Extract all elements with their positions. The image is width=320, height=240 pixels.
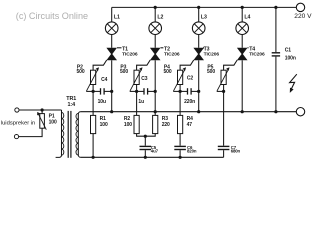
wire pot P4 bottom bbox=[179, 85, 181, 92]
node junction triac line T2 bbox=[154, 90, 157, 93]
node junction triac line T1 bbox=[110, 90, 113, 93]
lamp L1 bbox=[105, 7, 120, 34]
wire R2/R3 bottoms join bbox=[137, 134, 156, 137]
svg-text:TIC206: TIC206 bbox=[164, 52, 180, 58]
node junction pot P5 / filter bbox=[222, 90, 225, 93]
svg-text:C4: C4 bbox=[101, 77, 108, 83]
svg-text:(c) Circuits Online: (c) Circuits Online bbox=[16, 11, 88, 21]
node top rail junction L4 bbox=[241, 6, 244, 9]
triac T3 TIC206 bbox=[193, 46, 219, 60]
svg-text:T4: T4 bbox=[249, 46, 255, 52]
wire pot P5 bottom bbox=[223, 85, 225, 92]
svg-text:1:4: 1:4 bbox=[68, 102, 76, 108]
svg-text:500: 500 bbox=[207, 69, 215, 75]
svg-text:500: 500 bbox=[120, 69, 128, 75]
potentiometer P1 100 bbox=[37, 110, 57, 130]
svg-text:4u7: 4u7 bbox=[151, 149, 159, 154]
wire triac T3 down to mid rail bbox=[198, 60, 200, 111]
svg-text:500: 500 bbox=[164, 69, 172, 75]
wire input bottom to P1 bottom bbox=[19, 128, 42, 136]
wire P3 junction down to R2 bbox=[136, 91, 138, 115]
node mid rail junction T1 bbox=[110, 110, 113, 113]
transformer TR1 secondary winding bbox=[78, 112, 80, 158]
node mid rail junction T2 bbox=[154, 110, 157, 113]
wire triac T2 down to mid rail bbox=[154, 60, 156, 111]
svg-text:47: 47 bbox=[187, 122, 193, 128]
svg-text:680n: 680n bbox=[231, 149, 241, 154]
potentiometer P3 500 bbox=[120, 64, 143, 91]
svg-text:P1: P1 bbox=[49, 113, 55, 119]
svg-text:1u: 1u bbox=[138, 99, 144, 105]
svg-text:TIC206: TIC206 bbox=[204, 52, 220, 58]
svg-text:100: 100 bbox=[49, 120, 57, 126]
svg-text:L2: L2 bbox=[157, 14, 163, 20]
resistor R2 100 bbox=[124, 115, 139, 133]
node top rail junction L3 bbox=[197, 6, 200, 9]
svg-text:820n: 820n bbox=[187, 149, 197, 154]
resistor R1 100 bbox=[91, 115, 108, 133]
triac T2 TIC206 bbox=[150, 46, 180, 60]
wire gate of T2 to pot P3 bbox=[137, 60, 151, 70]
wire triac T4 down to mid rail bbox=[241, 60, 243, 111]
svg-text:100n: 100n bbox=[285, 56, 296, 62]
mains warning lightning bolt bbox=[290, 74, 297, 93]
wire P4 junction down to R4 bbox=[179, 91, 181, 115]
svg-text:220: 220 bbox=[162, 122, 170, 128]
capacitor C4 10u bbox=[86, 77, 112, 105]
wire pot P2 bottom bbox=[92, 85, 94, 92]
node top rail junction C1 bbox=[274, 6, 277, 9]
resistor R4 47 bbox=[178, 115, 194, 133]
transformer TR1 core bbox=[68, 111, 69, 158]
terminal 220V bottom bbox=[296, 108, 304, 116]
wire top 220V rail bbox=[112, 6, 297, 8]
svg-text:L3: L3 bbox=[201, 14, 207, 20]
node top rail junction L2 bbox=[154, 6, 157, 9]
svg-text:L1: L1 bbox=[114, 14, 120, 20]
capacitor C3 1u bbox=[130, 76, 156, 105]
triac T1 TIC206 bbox=[106, 46, 138, 60]
wire P2 junction down to R1 bbox=[92, 91, 94, 115]
terminal speaker input bottom bbox=[14, 135, 18, 139]
wire R1 to bottom rail bbox=[92, 134, 94, 158]
wire gate of T4 to pot P5 bbox=[224, 60, 238, 70]
node junction pot P2 / filter bbox=[92, 90, 95, 93]
lamp L4 bbox=[236, 7, 251, 34]
svg-text:100: 100 bbox=[124, 122, 132, 128]
node junction pot P3 / filter bbox=[135, 90, 138, 93]
node mid rail junction C1 bbox=[274, 110, 277, 113]
wire lamp L4 to triac T4 bbox=[241, 35, 243, 48]
svg-text:TIC206: TIC206 bbox=[249, 52, 265, 58]
triac T4 TIC206 bbox=[237, 46, 265, 60]
svg-text:luidspreker in: luidspreker in bbox=[1, 121, 35, 127]
node P1 top junction bbox=[41, 108, 44, 111]
potentiometer P2 500 bbox=[77, 64, 100, 91]
potentiometer P4 500 bbox=[164, 64, 187, 91]
node mid rail junction T3 bbox=[197, 110, 200, 113]
svg-text:TIC206: TIC206 bbox=[122, 52, 138, 58]
wire lamp L3 to triac T3 bbox=[198, 35, 200, 48]
node R2-R3 junction bbox=[144, 135, 147, 138]
terminal 220V top bbox=[296, 3, 304, 11]
wire gate of T3 to pot P4 bbox=[180, 60, 194, 70]
wire gate of T1 to pot P2 bbox=[93, 60, 107, 70]
capacitor C5 4u7 bbox=[140, 136, 159, 157]
wire lamp L1 to triac T1 bbox=[111, 35, 113, 48]
capacitor C6 820n bbox=[174, 134, 197, 158]
node bottom rail C6 bbox=[179, 156, 182, 159]
node bottom rail C5 bbox=[144, 156, 147, 159]
node bottom rail R1 bbox=[92, 156, 95, 159]
wire input top to P1/TR1 bbox=[19, 109, 62, 111]
svg-text:220n: 220n bbox=[184, 99, 195, 105]
terminal speaker input top bbox=[15, 108, 19, 112]
capacitor C2 220n bbox=[173, 75, 199, 104]
svg-text:100: 100 bbox=[100, 122, 108, 128]
svg-text:500: 500 bbox=[77, 69, 85, 75]
transformer TR1 primary winding bbox=[56, 110, 62, 157]
wire lamp L2 to triac T2 bbox=[154, 35, 156, 48]
svg-text:L4: L4 bbox=[244, 14, 250, 20]
svg-text:C1: C1 bbox=[285, 47, 292, 53]
svg-text:T2: T2 bbox=[164, 46, 170, 52]
svg-text:220 V: 220 V bbox=[294, 13, 312, 20]
node junction triac line T3 bbox=[197, 90, 200, 93]
wire R3 top stub bbox=[154, 112, 156, 116]
capacitor C1 100n bbox=[272, 7, 296, 111]
svg-text:C3: C3 bbox=[141, 76, 148, 82]
svg-text:T1: T1 bbox=[122, 46, 128, 52]
svg-text:C2: C2 bbox=[187, 75, 194, 81]
wire triac T1 down to mid rail bbox=[111, 60, 113, 111]
svg-text:T3: T3 bbox=[204, 46, 210, 52]
capacitor C7 680n bbox=[218, 91, 241, 157]
node mid rail junction T4 bbox=[241, 110, 244, 113]
wire wiper tail P5 bbox=[217, 90, 224, 92]
wire bottom rail (secondary low) bbox=[81, 156, 224, 158]
resistor R3 220 bbox=[153, 115, 170, 133]
potentiometer P5 500 bbox=[207, 64, 230, 91]
wire pot P3 bottom bbox=[136, 85, 138, 92]
svg-text:10u: 10u bbox=[98, 99, 106, 105]
lamp L3 bbox=[192, 7, 207, 34]
wire mid rail (triac common) bbox=[81, 111, 297, 113]
node junction pot P4 / filter bbox=[179, 90, 182, 93]
lamp L2 bbox=[149, 7, 164, 34]
